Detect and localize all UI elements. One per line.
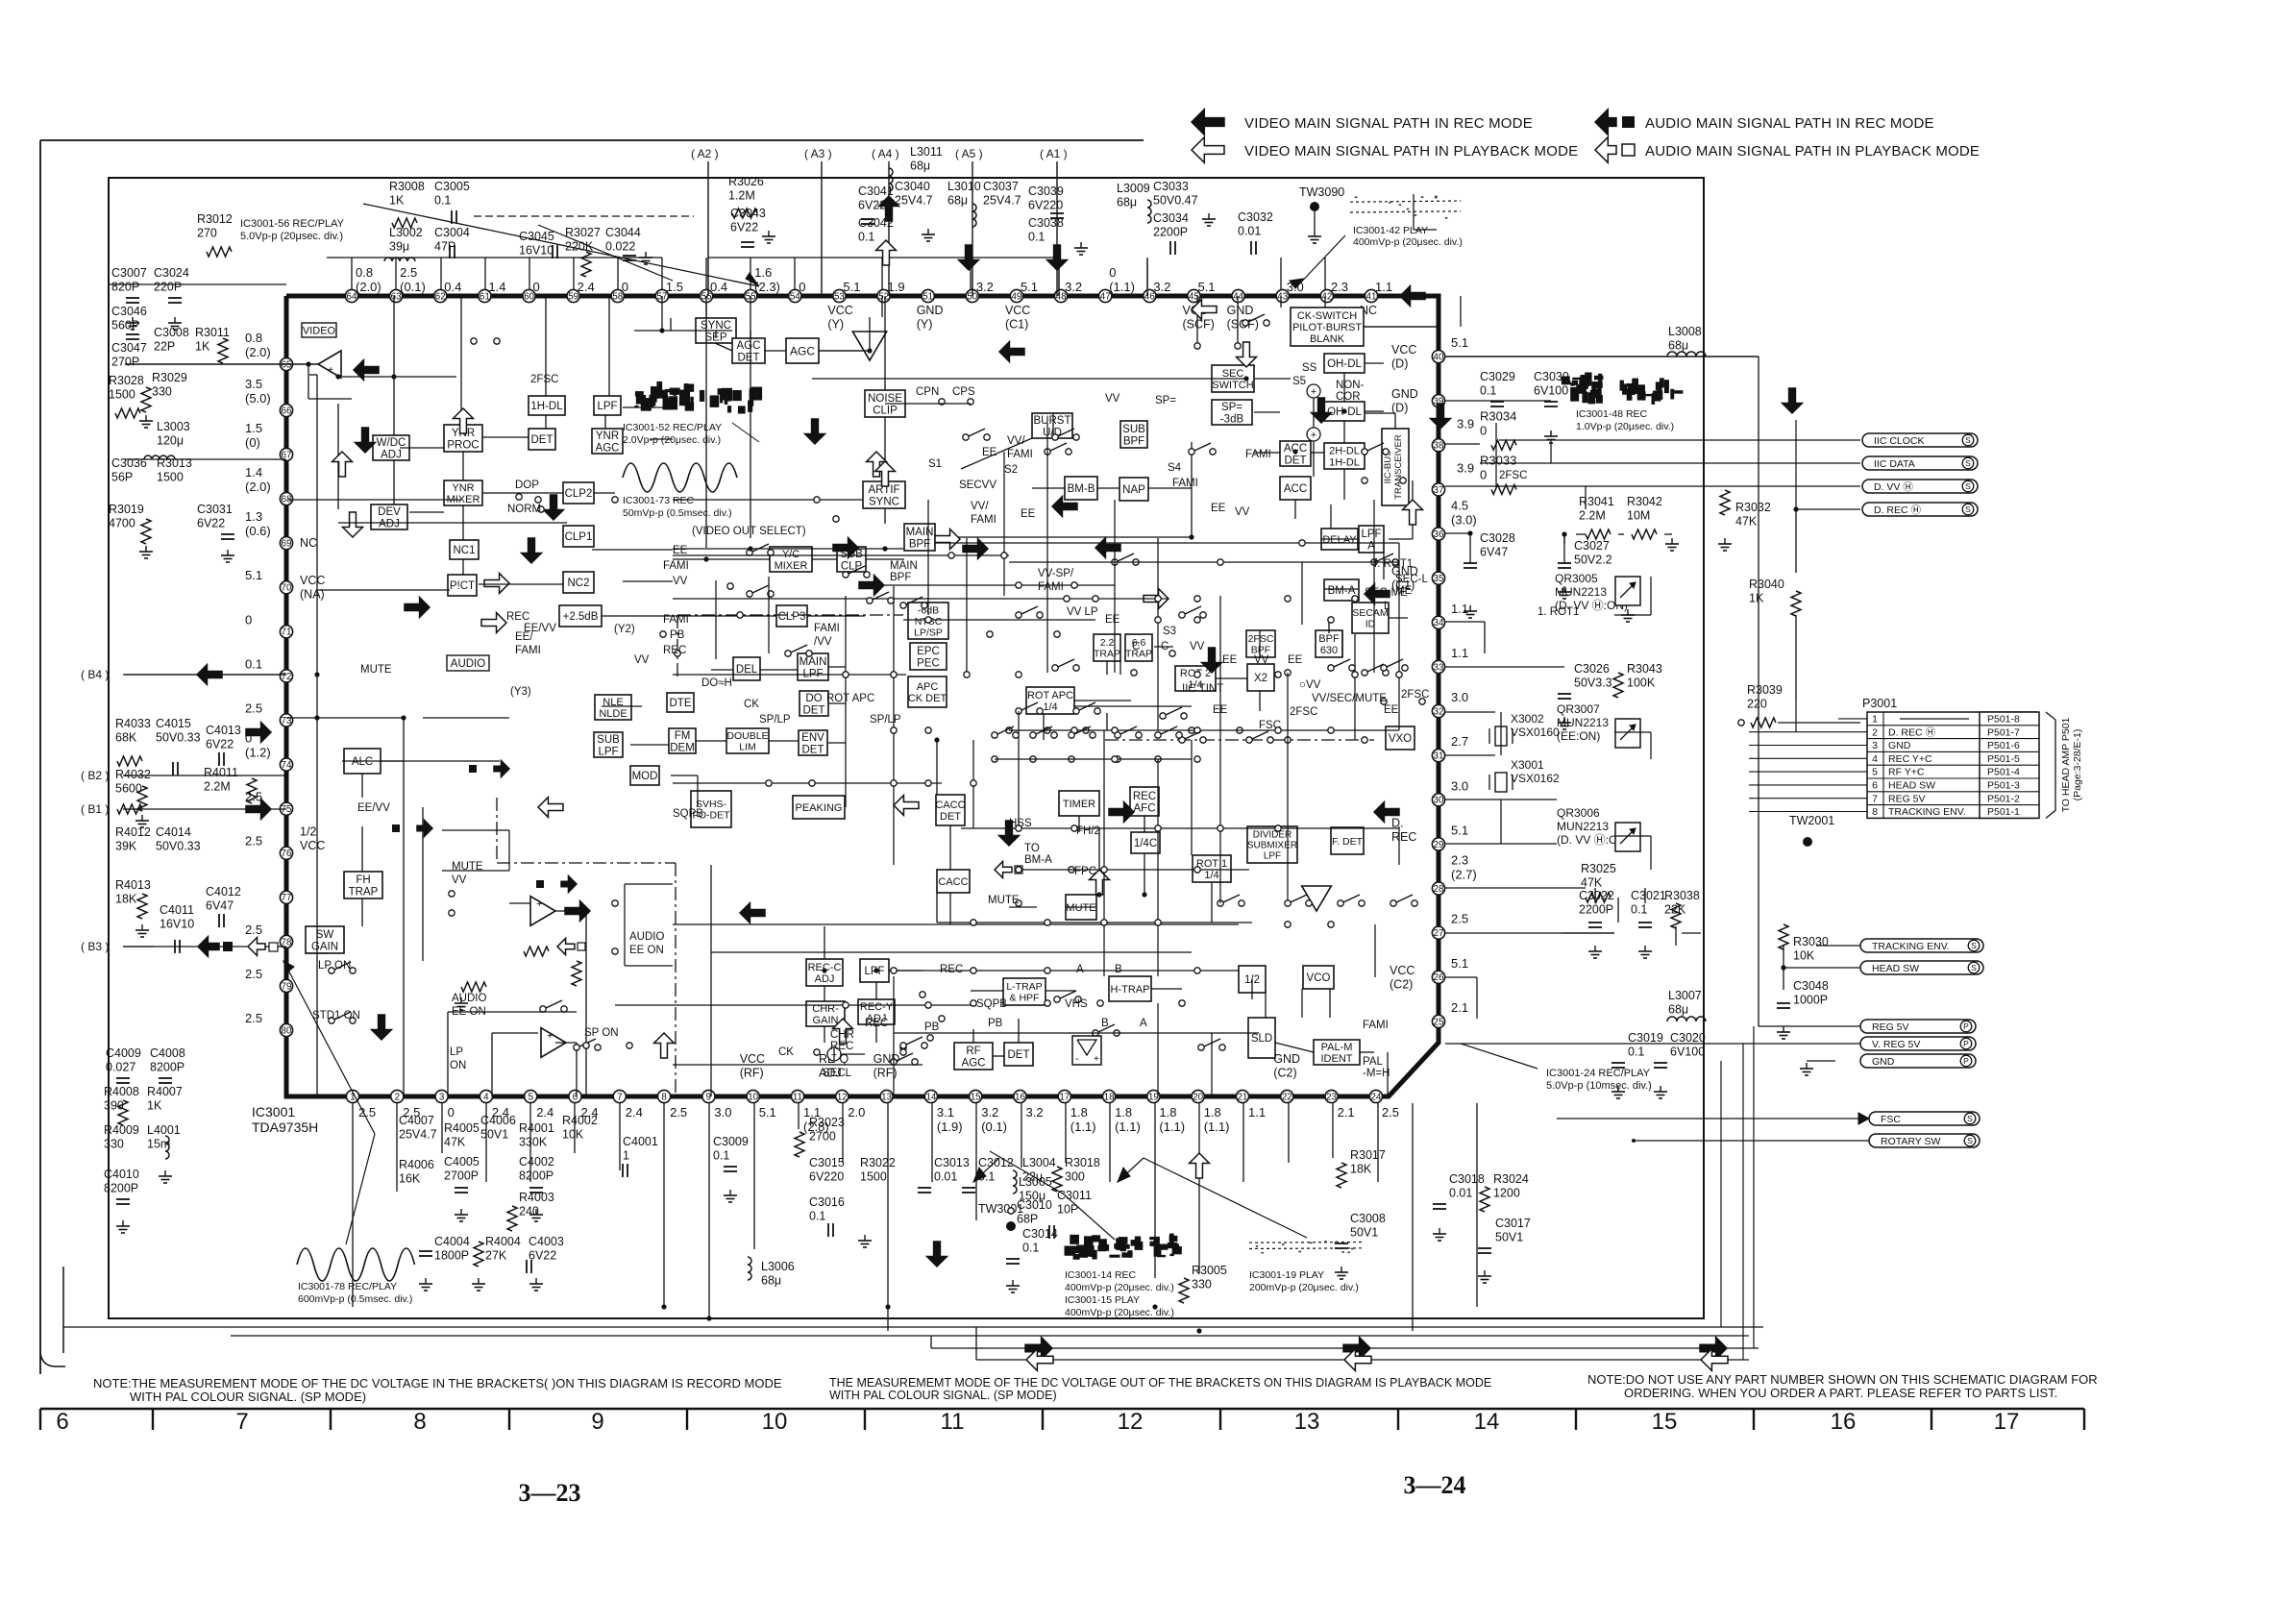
leader diagonal 1: [363, 204, 759, 286]
switch t3: [1362, 449, 1367, 455]
terminal c39: [900, 1045, 906, 1050]
svg-text:C3004: C3004: [434, 226, 470, 239]
svg-text:C3046: C3046: [111, 305, 147, 318]
svg-text:REC Y+C: REC Y+C: [1888, 753, 1932, 765]
NC2 box: [563, 572, 594, 593]
resistor audio fb1: [524, 947, 549, 956]
svg-text:1K: 1K: [195, 340, 210, 354]
svg-text:9: 9: [706, 1092, 711, 1102]
bus bottom 4: [976, 1359, 1749, 1361]
wire w76: [1074, 700, 1131, 701]
pin 9: [702, 1090, 715, 1102]
svg-text:VCC: VCC: [740, 1052, 765, 1066]
svg-text:ADJ: ADJ: [379, 518, 400, 529]
wire w142: [1065, 1103, 1067, 1163]
wire m84: [1374, 924, 1376, 977]
svg-text:MIXER: MIXER: [775, 560, 808, 572]
ROT 2 1/4 box: [1175, 666, 1216, 691]
wire w101: [824, 926, 825, 959]
svg-text:R3028: R3028: [109, 374, 144, 387]
switch s18: [891, 1059, 897, 1065]
svg-text:16K: 16K: [399, 1172, 421, 1186]
switch t14: [1155, 732, 1161, 738]
capacitor C3024 symbol: [168, 297, 182, 299]
svg-text:1.8: 1.8: [1115, 1105, 1132, 1120]
terminal d46: [971, 920, 976, 925]
wire w48: [1280, 296, 1282, 308]
NOISE CLIP box: [865, 390, 905, 417]
svg-text:R4012: R4012: [115, 825, 151, 839]
signal arrow 17: [859, 576, 884, 596]
svg-text:X3001: X3001: [1511, 758, 1544, 772]
switch s6: [747, 550, 752, 555]
svg-text:18K: 18K: [115, 893, 137, 906]
wire fsc: [1557, 1118, 1869, 1120]
svg-text:330: 330: [104, 1138, 124, 1151]
svg-text:ACC: ACC: [1284, 483, 1307, 495]
terminal d19: [1016, 672, 1021, 677]
svg-text:S: S: [1971, 941, 1977, 950]
svg-text:2.2M: 2.2M: [204, 780, 231, 794]
svg-text:PB: PB: [988, 1018, 1003, 1029]
svg-text:2.0: 2.0: [848, 1105, 865, 1120]
svg-text:AGC: AGC: [962, 1057, 986, 1069]
ground g3: [145, 415, 147, 421]
LPF 2 box: [860, 959, 889, 982]
svg-text:2.3: 2.3: [1331, 280, 1348, 294]
svg-text:+: +: [1094, 1054, 1099, 1065]
svg-text:ME: ME: [1395, 585, 1413, 597]
svg-text:R4033: R4033: [115, 717, 151, 730]
pin 61: [479, 289, 491, 302]
svg-text:(1.1): (1.1): [1109, 280, 1135, 294]
svg-text:L3002: L3002: [389, 226, 423, 239]
wire w168: [1675, 926, 1677, 946]
capacitor C3044 symbol: [623, 255, 636, 257]
terminal d39: [1071, 825, 1077, 831]
wire w161: [1445, 754, 1495, 756]
svg-text:CLP1: CLP1: [565, 531, 593, 543]
svg-text:56P: 56P: [111, 471, 133, 484]
VCO box: [1303, 966, 1334, 989]
pin 39: [1432, 395, 1444, 407]
terminal c27: [1362, 737, 1367, 743]
leader 3001-52: [732, 423, 759, 442]
terminal d9: [1299, 540, 1305, 546]
wire m45: [1330, 504, 1332, 529]
svg-text:16V10: 16V10: [519, 244, 554, 258]
terminal d18: [964, 672, 970, 677]
P!CT box: [448, 575, 477, 596]
svg-text:3.2: 3.2: [981, 1105, 998, 1120]
svg-text:1H-DL: 1H-DL: [530, 401, 563, 412]
connector oval IIC CLOCK: [1862, 433, 1978, 447]
wire A2 vertical: [707, 161, 709, 296]
wire m33: [1373, 500, 1375, 673]
capacitor C3019 symbol: [1611, 1062, 1625, 1064]
wire m72: [625, 883, 673, 885]
svg-text:REC: REC: [506, 611, 529, 623]
junction j25: [661, 1304, 666, 1309]
wire w132: [619, 1103, 621, 1170]
svg-text:(SCF): (SCF): [1182, 318, 1214, 332]
wire w2: [393, 296, 395, 435]
ruler line: [40, 1408, 2084, 1411]
terminal c47: [900, 1049, 906, 1055]
capacitor C3008b symbol: [1335, 1243, 1348, 1244]
Y/C MIXER box: [770, 547, 812, 572]
switch t11: [1030, 732, 1036, 738]
wire rotary: [1634, 1140, 1869, 1142]
connector oval IIC DATA: [1862, 456, 1978, 470]
svg-text:C3037: C3037: [983, 180, 1019, 193]
ENV DET box: [799, 730, 827, 755]
capacitor C3017 symbol: [1478, 1247, 1491, 1249]
wire m57: [650, 438, 673, 440]
svg-text:REG 5V: REG 5V: [1872, 1021, 1909, 1033]
terminal c5: [612, 497, 618, 503]
svg-text:27K: 27K: [485, 1249, 507, 1263]
pin 58: [611, 289, 624, 302]
svg-text:2.5: 2.5: [245, 923, 262, 937]
terminal d6: [948, 553, 954, 558]
page frame left rule 2: [62, 1267, 64, 1353]
svg-text:VV LP: VV LP: [1067, 606, 1098, 618]
svg-text:19: 19: [1148, 1092, 1159, 1102]
svg-text:C4003: C4003: [529, 1235, 564, 1248]
resistor R3040 symbol: [1791, 591, 1801, 616]
svg-text:R3039: R3039: [1747, 683, 1783, 697]
svg-text:GND: GND: [1273, 1052, 1300, 1066]
signal arrow 46: [1783, 388, 1803, 413]
svg-text:f. ROT1: f. ROT1: [1374, 558, 1413, 570]
svg-text:S2: S2: [1004, 464, 1018, 476]
pin 14: [924, 1090, 937, 1102]
junction j26: [1196, 1328, 1201, 1333]
svg-text:10M: 10M: [1627, 509, 1650, 523]
wire w133: [663, 1103, 665, 1307]
SP=-3dB box box: [1212, 400, 1252, 425]
signal arrow 14: [999, 342, 1024, 362]
terminal c18: [1285, 670, 1291, 676]
svg-text:47K: 47K: [444, 1136, 466, 1149]
sine IC3001-78: [297, 1248, 415, 1281]
switch s7: [747, 591, 752, 597]
wire w61: [1343, 469, 1345, 500]
svg-text:AGC: AGC: [596, 442, 620, 454]
svg-text:R4013: R4013: [115, 878, 151, 892]
svg-text:VV: VV: [1254, 654, 1269, 666]
wire w12: [309, 374, 317, 376]
svg-text:P501-1: P501-1: [1987, 806, 2020, 818]
wire w67: [1341, 630, 1343, 657]
svg-text:11: 11: [793, 1092, 802, 1102]
svg-text:C3007: C3007: [111, 266, 147, 280]
bus vertical left 2: [975, 1327, 977, 1360]
resistor R4013 symbol: [137, 894, 147, 919]
capacitor C3030 symbol: [1544, 401, 1558, 403]
signal arrow 44: [538, 798, 563, 818]
svg-text:SUB: SUB: [1122, 424, 1145, 435]
wire w63: [1389, 538, 1413, 540]
pin 1: [346, 1090, 358, 1102]
terminal c37: [583, 1043, 589, 1048]
bus arrow rec 3: [1700, 1338, 1727, 1360]
terminal d10: [1016, 582, 1021, 588]
wire stub above pin 60: [529, 258, 530, 289]
svg-text:DOP: DOP: [515, 480, 539, 491]
svg-text:VHS: VHS: [1065, 998, 1088, 1010]
svg-text:2700P: 2700P: [444, 1169, 479, 1183]
svg-text:R3012: R3012: [197, 212, 233, 226]
capacitor C4001 symbol: [622, 1164, 624, 1177]
svg-text:VIDEO MAIN SIGNAL PATH IN PLAY: VIDEO MAIN SIGNAL PATH IN PLAYBACK MODE: [1244, 143, 1578, 160]
svg-text:0.8: 0.8: [356, 265, 373, 280]
wire m54: [482, 492, 563, 494]
wire R3040 to P3001: [1795, 701, 1797, 732]
resistor R4011 symbol: [247, 778, 257, 803]
wire w159: [1484, 622, 1486, 653]
svg-text:6V47: 6V47: [1480, 546, 1508, 559]
svg-text:330K: 330K: [519, 1136, 548, 1149]
svg-text:GND: GND: [1888, 740, 1911, 751]
svg-text:1. ROT1: 1. ROT1: [1538, 606, 1579, 618]
capacitor C3007 symbol: [126, 297, 139, 299]
rec arrow pair 3: [494, 760, 509, 776]
svg-text:14: 14: [1474, 1409, 1500, 1435]
svg-text:GND: GND: [1227, 304, 1254, 317]
svg-text:36: 36: [1434, 529, 1444, 540]
svg-text:(C1): (C1): [1005, 318, 1028, 332]
svg-text:6V100: 6V100: [1534, 384, 1568, 398]
pin 40: [1432, 350, 1444, 362]
svg-text:X2: X2: [1254, 673, 1267, 684]
svg-text:13: 13: [1294, 1409, 1320, 1435]
svg-text:1/4C: 1/4C: [1134, 838, 1157, 849]
wire m14: [673, 782, 942, 784]
svg-text:VV: VV: [634, 654, 650, 666]
leader diagonal 2: [538, 225, 673, 281]
capacitor C4015 symbol: [172, 762, 174, 775]
svg-text:IIC DATA: IIC DATA: [1874, 458, 1915, 470]
junction j3: [335, 374, 340, 379]
svg-text:FH/2: FH/2: [1076, 825, 1100, 837]
capacitor C3029 symbol: [1490, 401, 1504, 403]
terminal c25: [1237, 727, 1242, 733]
capacitor C4013 symbol: [218, 752, 220, 766]
capacitor C4011 symbol: [174, 940, 176, 953]
resistor R3041 symbol: [1586, 529, 1611, 539]
svg-text:IC3001-73 REC: IC3001-73 REC: [623, 495, 695, 506]
wire m34: [1018, 711, 1020, 826]
svg-text:BPF: BPF: [1318, 633, 1340, 645]
junction j4: [391, 374, 396, 379]
svg-text:L3003: L3003: [157, 420, 190, 433]
legend video rec arrow: [1192, 110, 1224, 135]
svg-text:BM-A: BM-A: [1328, 585, 1356, 597]
pin 45: [1188, 289, 1200, 302]
svg-text:2.2M: 2.2M: [1579, 509, 1606, 523]
ground g34: [1644, 946, 1646, 951]
svg-text:AGC: AGC: [790, 344, 815, 357]
svg-text:SP=: SP=: [1221, 402, 1242, 413]
signal arrow 15: [1237, 342, 1257, 367]
terminal d1: [1093, 596, 1098, 602]
ground g21: [864, 1235, 866, 1241]
BM-B box: [1065, 477, 1097, 500]
terminal d57: [1328, 922, 1334, 927]
capacitor C4004 symbol: [419, 1250, 432, 1252]
wire w165: [1445, 932, 1614, 934]
svg-text:5.1: 5.1: [1451, 335, 1468, 350]
svg-text:C3047: C3047: [111, 341, 147, 355]
pin 11: [791, 1090, 803, 1102]
svg-text:VCC: VCC: [300, 574, 325, 587]
connector P3001 table: [1867, 712, 2036, 818]
resistor R3019 symbol: [141, 519, 151, 544]
capacitor C3020 symbol: [1654, 1062, 1667, 1064]
pin 34: [1432, 616, 1444, 628]
svg-text:CK: CK: [744, 699, 759, 710]
svg-text:VIDEO MAIN SIGNAL PATH IN REC: VIDEO MAIN SIGNAL PATH IN REC MODE: [1244, 115, 1533, 132]
svg-text:16: 16: [1015, 1092, 1025, 1102]
wire w175: [1618, 533, 1624, 535]
SECAM ID box: [1352, 603, 1389, 633]
svg-text:2FSC: 2FSC: [1248, 633, 1274, 645]
DET box: [529, 429, 555, 450]
svg-text:B: B: [1115, 964, 1122, 975]
TW3090 dot: [1310, 202, 1319, 211]
svg-text:VCC: VCC: [1005, 304, 1030, 317]
svg-text:0.1: 0.1: [713, 1149, 729, 1163]
signal arrow 18: [875, 461, 896, 486]
wire m61: [630, 744, 669, 746]
svg-text:2.7: 2.7: [1451, 734, 1468, 749]
chain line audio 3: [496, 798, 498, 863]
wire m21: [615, 1004, 971, 1006]
svg-text:1.4: 1.4: [245, 465, 262, 480]
resistor R3029 symbol: [141, 387, 151, 412]
wire w79: [936, 740, 938, 795]
APC CK DET box: [908, 677, 947, 707]
terminal d55: [843, 1002, 849, 1008]
wire m8: [673, 598, 1169, 600]
wire w171: [1563, 534, 1565, 563]
svg-text:R4001: R4001: [519, 1121, 554, 1135]
svg-text:C3033: C3033: [1153, 180, 1189, 193]
wire w51: [1311, 452, 1324, 454]
svg-text:1.1: 1.1: [1375, 280, 1392, 294]
svg-text:BLANK: BLANK: [1310, 333, 1345, 345]
capacitor C3013 symbol: [918, 1187, 931, 1189]
signal arrow 19: [959, 245, 979, 270]
AUDIO tag: [447, 655, 489, 671]
capacitor C4012 symbol: [218, 914, 220, 927]
svg-text:16: 16: [1831, 1409, 1857, 1435]
wire w47: [1324, 296, 1326, 308]
EPC PEC box: [910, 643, 947, 670]
ruler tick 6: [1219, 1409, 1221, 1430]
svg-text:68μ: 68μ: [910, 160, 930, 173]
coil L3004 symbol: [1013, 1170, 1017, 1193]
resistor R4003 symbol: [507, 1206, 517, 1231]
svg-text:(5.0): (5.0): [245, 391, 271, 406]
svg-text:1000P: 1000P: [1793, 994, 1828, 1007]
ground g11: [141, 815, 143, 821]
svg-text:C3018: C3018: [1449, 1172, 1485, 1186]
wire w167: [1617, 898, 1619, 923]
svg-text:D.: D.: [1391, 816, 1404, 829]
svg-text:EE: EE: [1288, 654, 1303, 666]
wire m52: [409, 511, 444, 513]
coil L3002 symbol: [384, 258, 415, 261]
switch s23: [1160, 713, 1166, 719]
svg-text:NORM: NORM: [507, 504, 541, 515]
ground g37: [1660, 1086, 1661, 1092]
svg-text:6V22: 6V22: [730, 221, 758, 234]
signal arrow 23: [1400, 286, 1425, 307]
terminal d40: [1155, 825, 1161, 831]
svg-text:(1.1): (1.1): [1070, 1120, 1096, 1134]
capacitor C3039 symbol: [1050, 212, 1064, 214]
pin 41: [1365, 289, 1377, 302]
svg-text:PILOT-BURST: PILOT-BURST: [1292, 322, 1362, 333]
wire stub above pin 42: [1324, 258, 1326, 289]
terminal d27: [1112, 727, 1118, 733]
wire w64: [1324, 588, 1359, 590]
wire w26: [673, 558, 770, 560]
OH-DL 1 box: [1324, 354, 1365, 373]
svg-text:1H-DL: 1H-DL: [1329, 456, 1360, 468]
svg-text:S3: S3: [1163, 626, 1176, 637]
svg-text:FPC: FPC: [1074, 866, 1096, 877]
svg-text:CACC: CACC: [938, 876, 968, 888]
wire w117: [403, 718, 405, 1096]
svg-text:50V1: 50V1: [1495, 1231, 1523, 1244]
svg-text:EE: EE: [1211, 503, 1226, 514]
wire m60: [602, 705, 642, 707]
svg-text:R3026: R3026: [728, 175, 764, 188]
svg-text:+: +: [1311, 430, 1316, 441]
svg-text:IIC CLOCK: IIC CLOCK: [1874, 435, 1925, 447]
svg-text:2.5: 2.5: [245, 967, 262, 981]
svg-text:L3011: L3011: [910, 145, 943, 159]
terminal d4: [1285, 596, 1291, 602]
svg-text:R3011: R3011: [195, 326, 230, 339]
svg-text:P: P: [1963, 1021, 1969, 1031]
svg-text:THE MEASUREMEMT MODE OF THE DC: THE MEASUREMEMT MODE OF THE DC VOLTAGE O…: [829, 1376, 1491, 1390]
svg-text:VV-SP/: VV-SP/: [1038, 568, 1074, 579]
svg-text:D. REC Ⓗ: D. REC Ⓗ: [1874, 504, 1922, 516]
ruler left end: [39, 1409, 41, 1430]
terminal d24: [891, 727, 897, 733]
svg-text:27: 27: [1434, 928, 1444, 939]
wire w49: [1254, 411, 1280, 413]
wire w53: [1365, 410, 1384, 412]
ground g4: [145, 546, 147, 552]
wire w148: [1332, 1103, 1334, 1158]
coil L3009 symbol: [1147, 200, 1151, 223]
terminal d47: [1045, 920, 1050, 925]
op-amp video input: [318, 351, 341, 378]
wire m27: [1046, 423, 1048, 673]
svg-text:C3011: C3011: [1057, 1189, 1092, 1202]
junction j21: [1793, 506, 1798, 511]
resistor R3005 symbol: [1179, 1278, 1189, 1303]
svg-text:GND: GND: [1391, 387, 1418, 401]
wire m98: [1476, 977, 1478, 1019]
svg-text:1200: 1200: [1493, 1187, 1520, 1200]
